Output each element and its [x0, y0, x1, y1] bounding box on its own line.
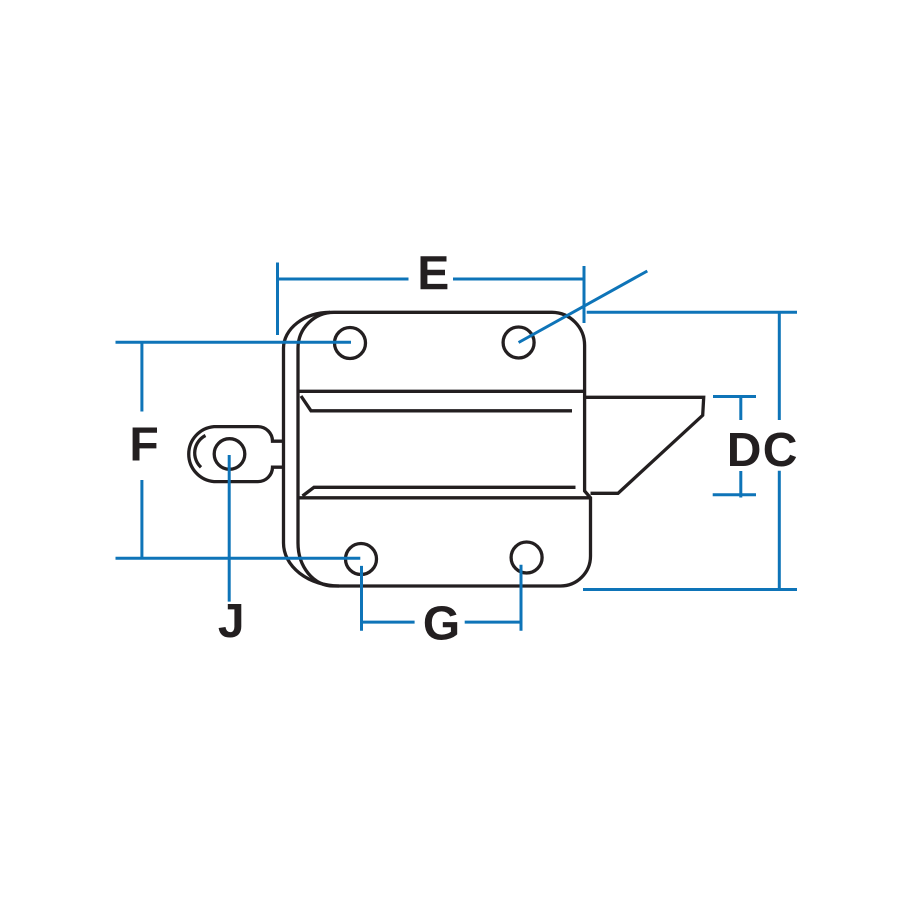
dim F ext bottom [116, 557, 361, 560]
body plate outline [298, 312, 591, 586]
dim E line [278, 278, 585, 281]
label F [133, 428, 157, 461]
leader diagonal to top-right hole [519, 271, 648, 343]
band line bottom [298, 496, 591, 499]
keeper tab [189, 427, 284, 482]
dim D tick top [713, 395, 756, 398]
dim C line [778, 312, 781, 589]
keeper inner arc [195, 436, 206, 468]
dim D tick bottom [713, 493, 756, 496]
leader J [228, 455, 231, 602]
keeper hole [214, 439, 245, 470]
dim G tick left [360, 566, 363, 631]
body outer left fold [284, 312, 340, 586]
strike flag [585, 397, 704, 493]
dim G line [362, 621, 522, 624]
hole bottom-left [346, 544, 377, 575]
dim G tick right [520, 565, 523, 631]
band inner line lower [303, 487, 576, 496]
dim C ext top [587, 311, 797, 314]
dim F ext top [116, 341, 352, 344]
hole top-right [503, 327, 534, 358]
hole bottom-right [511, 542, 542, 573]
dim F line [140, 342, 143, 558]
dim E tick right [583, 266, 586, 323]
label C [765, 433, 796, 467]
label D [730, 433, 759, 466]
hole top-left [335, 328, 366, 359]
band line top [298, 390, 585, 393]
label G [425, 606, 457, 640]
label E [421, 256, 448, 289]
band inner line upper [301, 396, 572, 411]
dim C ext bottom [583, 588, 797, 591]
dim E tick left [276, 263, 279, 336]
label J [219, 604, 242, 638]
dim D line [739, 397, 742, 498]
